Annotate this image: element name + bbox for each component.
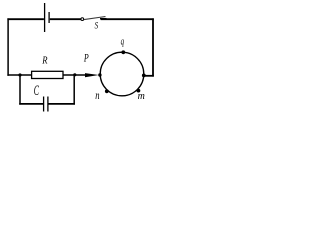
svg-text:S: S (95, 19, 99, 30)
svg-text:n: n (95, 90, 99, 102)
svg-text:m: m (138, 91, 145, 102)
svg-text:q: q (121, 35, 125, 47)
svg-text:R: R (41, 54, 47, 66)
svg-text:P: P (83, 52, 89, 65)
svg-text:C: C (34, 82, 39, 98)
